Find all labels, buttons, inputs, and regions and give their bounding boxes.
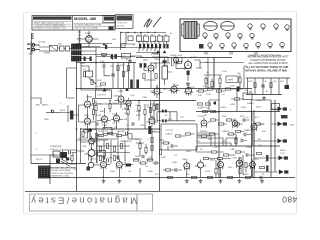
auxiliary table box [116, 15, 134, 29]
svg-text:FIELD: FIELD [280, 150, 286, 152]
ground G2 [262, 96, 266, 100]
scan page edge left [23, 13, 25, 214]
capacitor C35 [171, 144, 173, 148]
resistor R34 [134, 159, 139, 161]
svg-text:5H: 5H [265, 161, 268, 163]
svg-text:MIC: MIC [36, 105, 40, 107]
wire [161, 143, 178, 150]
footer rule [25, 191, 295, 193]
ground [138, 179, 142, 183]
svg-text:.02: .02 [83, 69, 87, 71]
filter capacitor can C20 (layout) [204, 21, 218, 30]
wire [77, 128, 109, 163]
svg-text:270: 270 [180, 117, 184, 119]
resistor R88 [71, 156, 73, 161]
wire [62, 153, 73, 164]
tube V24 6X4 [250, 159, 256, 169]
wire [118, 55, 143, 58]
wire: rail x275 [274, 100, 276, 172]
wire [79, 95, 96, 139]
svg-text:20MFD: 20MFD [222, 131, 230, 133]
capacitor C19a [175, 168, 177, 172]
svg-text:410V: 410V [190, 87, 196, 89]
resistor R92 [139, 144, 141, 149]
capacitor C24 (electrolytic, dark) [130, 80, 133, 89]
resistor R87 [210, 133, 215, 135]
ground G5 [163, 51, 166, 53]
svg-text:1: 1 [36, 133, 38, 135]
resistor R14 [239, 78, 241, 83]
ground [185, 179, 189, 183]
svg-text:1M: 1M [124, 119, 127, 121]
output transformer T2 (blank box) [161, 124, 197, 150]
svg-text:250K: 250K [100, 119, 106, 121]
tube V12 5Y3GT [201, 118, 207, 128]
svg-text:10: 10 [137, 34, 139, 36]
wire [96, 134, 132, 140]
wire: bus y62.5 left [77, 62, 137, 64]
wire [81, 63, 110, 91]
terminal (dark) [163, 60, 167, 63]
svg-text:117V AC: 117V AC [38, 41, 47, 44]
svg-text:16: 16 [262, 174, 265, 176]
svg-text:47K: 47K [155, 174, 159, 176]
svg-text:470K: 470K [140, 125, 146, 127]
filter choke L1 [152, 53, 160, 55]
svg-text:B+: B+ [266, 91, 269, 93]
shielded lead (dark) [70, 111, 73, 120]
capacitor C43 (electrolytic) [159, 44, 161, 49]
svg-text:100K: 100K [230, 86, 235, 88]
svg-text:470K: 470K [97, 80, 102, 82]
svg-text:270K: 270K [206, 94, 211, 96]
tube V9 6AU6 [154, 86, 160, 96]
wire [124, 104, 129, 110]
switch box S2 [122, 54, 131, 59]
output terminal box [243, 93, 252, 100]
svg-text:12K: 12K [258, 145, 262, 147]
resistor R65 [215, 169, 217, 174]
svg-text:ALL CAPACITOR VALUES IN MFD: ALL CAPACITOR VALUES IN MFD [248, 62, 287, 65]
chassis mounting tabs [205, 52, 257, 55]
svg-text:.05: .05 [264, 81, 268, 83]
wire [60, 113, 78, 116]
jack bezel box [272, 104, 280, 110]
svg-text:COIL: COIL [280, 153, 286, 155]
svg-text:40: 40 [165, 34, 167, 36]
wire [154, 66, 247, 146]
resistor R12 [211, 82, 213, 87]
resistor R59 [99, 147, 101, 152]
wire: diagonal [89, 78, 96, 84]
capacitor C50 [241, 139, 243, 143]
svg-text:270K: 270K [222, 71, 227, 73]
pilot lamp (layout) [199, 44, 204, 49]
svg-text:6.3V: 6.3V [120, 45, 125, 47]
resistor R94 [235, 139, 237, 144]
wire: right network bottom [246, 94, 282, 96]
wire [209, 159, 231, 178]
wire [252, 100, 272, 108]
wire [96, 101, 139, 130]
capacitor C13 (dark) [237, 87, 240, 92]
labels above osc boxes [137, 34, 167, 36]
svg-text:460V: 460V [221, 107, 227, 109]
tube V14 12AX7 [101, 159, 107, 169]
input jack J2 [32, 48, 40, 51]
capacitor C4 (electrolytic) [114, 54, 117, 59]
svg-text:270K: 270K [246, 147, 252, 149]
wire [93, 99, 95, 121]
wire [104, 63, 110, 76]
svg-text:100K: 100K [172, 162, 178, 164]
tube socket V12 (layout) [232, 43, 236, 49]
resistor R77 [159, 150, 161, 155]
svg-text:.05: .05 [111, 135, 115, 137]
resistor R13 [219, 79, 221, 84]
svg-text:440V: 440V [241, 107, 247, 109]
capacitor C14 [243, 118, 245, 122]
resistor R53 [156, 105, 158, 110]
resistor R93 [145, 148, 147, 153]
svg-text:100K: 100K [84, 115, 90, 117]
fuse F1 [50, 46, 58, 52]
ground [237, 179, 241, 183]
svg-text:NOTE 1: NOTE 1 [92, 141, 101, 143]
capacitor C15 [261, 85, 265, 87]
resistor R40 [208, 176, 213, 178]
resistor R22b [143, 74, 145, 79]
parts list table left rows [33, 22, 72, 27]
resistor R18 [95, 106, 97, 111]
scan page edge top [23, 12, 297, 13]
speaker jack SP4 [279, 156, 288, 161]
svg-text:8MFD: 8MFD [243, 174, 249, 176]
wire: rail x254 [253, 110, 255, 178]
tube socket V10 (layout) [208, 43, 212, 49]
resistor R16 [83, 72, 85, 77]
wire [168, 91, 179, 95]
resistor R52 [149, 108, 151, 113]
svg-text:PH INV: PH INV [118, 131, 125, 133]
ground G1 [128, 59, 132, 63]
wire: rail x271 [270, 100, 272, 177]
ground [219, 179, 223, 183]
wire: box-to-cap drops [139, 42, 166, 44]
capacitor C3 (electrolytic) [111, 54, 114, 59]
wire: bus y146 [196, 145, 280, 147]
svg-text:6.3V: 6.3V [100, 61, 105, 63]
svg-text:390K: 390K [136, 111, 142, 113]
svg-text:220K: 220K [120, 65, 125, 67]
svg-text:68K: 68K [100, 111, 104, 113]
svg-text:450WV: 450WV [200, 131, 208, 133]
tube V16 12AX7 [184, 160, 190, 170]
svg-text:6AU6: 6AU6 [210, 159, 216, 162]
svg-text:LINE 117VAC NO SIGNAL: LINE 117VAC NO SIGNAL [74, 27, 99, 30]
tube socket V6 (layout) [214, 33, 218, 39]
svg-text:100: 100 [234, 139, 238, 141]
resistor R41 [228, 176, 233, 178]
wire [67, 105, 69, 122]
wire: jack bracket [32, 33, 34, 52]
capacitor C42 (electrolytic) [155, 44, 157, 49]
speaker jack SP5 [279, 170, 288, 175]
wire [81, 48, 160, 63]
resistor R57 [95, 134, 97, 139]
svg-text:1K: 1K [200, 149, 203, 151]
filter capacitor can C21 (layout) [221, 21, 235, 30]
wire [231, 98, 244, 100]
capacitor C47 (electrolytic) [144, 63, 146, 67]
wire [196, 146, 255, 155]
capacitor C2 (electrolytic) [90, 57, 92, 62]
svg-text:.05: .05 [128, 171, 132, 173]
table edge block (dark) [109, 27, 114, 31]
svg-text:20: 20 [158, 34, 160, 36]
tube V10 12AX7 [149, 115, 155, 125]
capacitor C10b [111, 74, 115, 76]
capacitor C22 [246, 153, 248, 157]
capacitor C9 [103, 64, 105, 68]
capacitor C33 (electrolytic) [147, 44, 149, 49]
tube V17 6AU6 (with dark wedge) [195, 160, 207, 169]
wire [196, 58, 243, 112]
capacitor C25 (electrolytic, dark) [136, 80, 139, 89]
svg-text:20MFD: 20MFD [247, 103, 255, 105]
svg-text:GND: GND [29, 54, 34, 56]
resistor R58 [84, 130, 89, 132]
tube V2 12AX7 [85, 116, 91, 126]
resistor R22 [199, 90, 204, 92]
svg-text:385V: 385V [186, 151, 192, 153]
wire [90, 129, 142, 139]
tube V6 12AX7 [148, 63, 154, 73]
tube V1 12AX7 [85, 99, 91, 109]
resistor R56 [82, 132, 84, 137]
resistor R31 [270, 83, 272, 88]
tube socket V9 (layout) [250, 33, 254, 39]
resistor R37 [166, 169, 171, 171]
resistor R26b [177, 61, 182, 63]
wire: rail x251.5 [251, 108, 253, 178]
capacitor C17 [69, 151, 71, 155]
resistor R19 [109, 104, 111, 109]
resistor R11 [205, 79, 207, 84]
wire: left rail [30, 42, 32, 164]
tube V13 6AU6 [251, 121, 257, 131]
svg-text:1 MEG: 1 MEG [122, 109, 129, 111]
svg-text:450: 450 [262, 131, 266, 133]
svg-text:6V6GT: 6V6GT [191, 57, 198, 59]
capacitor C32 (electrolytic) [143, 44, 145, 49]
svg-text:TONE VOL: TONE VOL [117, 23, 128, 25]
svg-text:1200: 1200 [102, 125, 108, 127]
wire [97, 89, 128, 129]
wire [31, 153, 77, 165]
wire: rail x76.5 [76, 61, 78, 191]
value labels [36, 44, 268, 174]
svg-text:AC SW: AC SW [117, 25, 124, 28]
power transformer T1 (schematic) [72, 44, 82, 61]
resistor R82 [206, 103, 211, 105]
resistor R45 [236, 151, 241, 153]
label plate (dark) [126, 164, 132, 167]
parts list table left header (dark) [33, 17, 72, 20]
ground [260, 179, 264, 183]
capacitor C11 [96, 122, 98, 126]
svg-text:2: 2 [36, 149, 38, 151]
ground G3 [186, 82, 190, 86]
capacitor C34 (electrolytic) [151, 44, 153, 49]
svg-text:B: B [126, 59, 128, 61]
resistor R25 [226, 88, 231, 90]
resistor R75 [151, 138, 153, 143]
switch S1 [60, 46, 65, 51]
svg-text:6V6: 6V6 [255, 159, 259, 161]
svg-text:TREM: TREM [228, 80, 234, 82]
svg-text:12AX7: 12AX7 [85, 32, 92, 35]
svg-text:1M: 1M [110, 66, 113, 68]
heater supply box [96, 90, 112, 99]
resistor R63 [204, 157, 209, 159]
wire: right network top [246, 77, 290, 79]
svg-text:220K: 220K [82, 146, 87, 148]
svg-text:5V: 5V [133, 45, 136, 47]
title box [30, 194, 138, 211]
svg-text:10K: 10K [250, 167, 254, 169]
junction box [103, 128, 112, 134]
resistor R64 [218, 157, 223, 159]
svg-text:250: 250 [218, 174, 222, 176]
svg-text:.1: .1 [147, 139, 150, 141]
input jack J1 [32, 43, 40, 46]
label: terminal numbers [31, 33, 34, 38]
resistor R91 [117, 134, 122, 136]
switch S3 (dark mass) [61, 152, 68, 158]
svg-text:410V: 410V [172, 91, 178, 93]
svg-text:12AX7: 12AX7 [182, 158, 189, 161]
resistor R30 [254, 83, 256, 88]
wire [136, 140, 146, 157]
resistor R78 [235, 98, 240, 100]
wire [146, 101, 160, 127]
capacitor C37 [117, 156, 119, 160]
svg-text:ESTEY ELECTRONICS: ESTEY ELECTRONICS [52, 173, 74, 175]
svg-text:.05: .05 [206, 72, 210, 74]
capacitor C39 (electrolytic) [266, 155, 268, 161]
scan page edge bottom [24, 213, 296, 215]
wire [39, 47, 72, 51]
resistor R85 [186, 133, 191, 135]
wire [113, 63, 134, 89]
wire [50, 100, 219, 155]
wire [163, 125, 253, 177]
svg-text:WITH NO SIGNAL VOLUME AT MIN: WITH NO SIGNAL VOLUME AT MIN [245, 69, 287, 72]
svg-text:.02: .02 [214, 147, 218, 149]
svg-text:OUTPUT: OUTPUT [165, 130, 174, 132]
svg-text:1M: 1M [249, 91, 252, 93]
tube socket V1 (layout) [248, 24, 252, 30]
svg-text:12AX7: 12AX7 [133, 158, 140, 161]
tube socket V15 (layout) [268, 42, 272, 48]
resistor R28b [153, 106, 155, 111]
wire [144, 63, 156, 89]
svg-text:8: 8 [290, 110, 292, 112]
svg-text:470K: 470K [161, 157, 167, 159]
svg-text:NC: NC [204, 115, 208, 117]
svg-text:.01: .01 [219, 86, 223, 88]
handwritten check mark [144, 19, 152, 27]
wire: rail x219 [218, 88, 220, 177]
svg-text:450V: 450V [256, 107, 262, 109]
capacitor C30 (electrolytic) [105, 45, 107, 49]
capacitor C38 [244, 133, 246, 137]
parts list table divider [72, 16, 74, 31]
resistor R19b [117, 66, 119, 71]
capacitor C40 (electrolytic) [266, 166, 268, 172]
svg-text:470K: 470K [230, 104, 236, 106]
svg-text:12AX7: 12AX7 [154, 58, 161, 61]
svg-text:47K: 47K [280, 81, 284, 83]
svg-text:.02: .02 [174, 155, 178, 157]
tube socket V4 (layout) [285, 25, 289, 31]
svg-text:HARMONY IL USA: HARMONY IL USA [52, 175, 70, 178]
tube socket V11 (layout) [220, 43, 224, 49]
svg-text:6SN7: 6SN7 [148, 119, 154, 121]
junction blob (dark) [89, 129, 93, 132]
svg-text:OSC: OSC [112, 39, 117, 41]
label: input jacks [27, 44, 30, 50]
capacitor C36 [103, 156, 105, 160]
resistor R24 [217, 90, 222, 92]
wire [248, 78, 288, 94]
resistor R36 [148, 159, 153, 161]
resistor R42 [246, 176, 251, 178]
svg-text:470K: 470K [96, 115, 102, 117]
wire: switch fan-out [53, 155, 70, 167]
wire [31, 68, 77, 160]
svg-text:12AX7: 12AX7 [86, 96, 93, 99]
svg-text:470K: 470K [205, 171, 211, 173]
svg-text:J: J [60, 103, 61, 105]
ground [199, 179, 203, 183]
wire: rail x50 lower [49, 155, 51, 184]
svg-text:250K: 250K [135, 156, 140, 158]
wire [181, 134, 219, 136]
svg-text:20: 20 [206, 108, 209, 110]
capacitor C31 (electrolytic) [139, 44, 141, 49]
resistor R18b [101, 83, 106, 85]
resistor R23 [208, 88, 213, 90]
resistor R21b [127, 66, 129, 71]
wire [247, 166, 252, 177]
resistor R73 [99, 156, 101, 161]
resistor R17 [91, 80, 93, 85]
resistor R51 [92, 110, 94, 115]
tube socket V7 (layout) [226, 33, 230, 39]
tube V22 12AX7 (with dark wedge) [84, 147, 97, 160]
wire [96, 103, 128, 105]
svg-text:12AX7: 12AX7 [113, 95, 120, 98]
svg-text:SHLD: SHLD [60, 110, 66, 112]
potentiometer P1 [87, 162, 94, 170]
svg-text:470: 470 [186, 174, 190, 176]
tube socket V14 (layout) [256, 42, 260, 48]
capacitor C12 [132, 122, 134, 126]
capacitor C23 [66, 46, 70, 51]
svg-text:OSC: OSC [104, 131, 109, 133]
